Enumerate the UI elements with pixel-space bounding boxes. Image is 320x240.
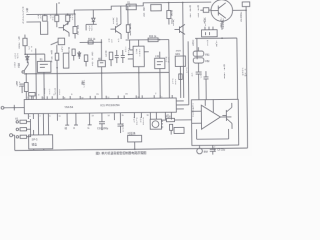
opto IC2	[63, 53, 69, 68]
svg-text:C6: C6	[191, 73, 193, 77]
resistor R20	[148, 38, 158, 42]
keypad IC5	[29, 130, 53, 151]
switch S1	[126, 4, 136, 10]
ground stub 2	[74, 124, 78, 126]
resistor R4	[73, 14, 77, 39]
diode VD1	[26, 54, 29, 63]
svg-text:C4: C4	[117, 39, 119, 43]
svg-text:R4 1k: R4 1k	[77, 26, 80, 36]
diode VD2	[78, 51, 81, 59]
svg-text:VT3: VT3	[172, 20, 174, 26]
svg-text:9014: 9014	[116, 19, 118, 27]
transistor VT2	[110, 6, 121, 39]
transistor VT4 power can	[211, 0, 233, 21]
wire drop x188	[187, 41, 190, 104]
terminal bottom left	[10, 134, 15, 151]
timer box	[128, 135, 142, 149]
svg-text:图1 单片机语音报警控制器电路原理图: 图1 单片机语音报警控制器电路原理图	[96, 150, 147, 156]
wire can emitter drop	[221, 21, 223, 29]
svg-text:C10 100μ: C10 100μ	[97, 126, 109, 130]
svg-text:GB 6V: GB 6V	[143, 8, 145, 18]
resistor R11	[84, 55, 88, 67]
resistor R2	[55, 15, 59, 27]
resistor R18	[161, 118, 191, 122]
wire mid-left node	[25, 48, 45, 99]
resistor R3	[66, 14, 70, 25]
capacitor C5	[121, 50, 125, 63]
capacitor C4	[115, 50, 119, 63]
module LS box	[155, 52, 166, 99]
terminal input	[1, 105, 24, 111]
switch SB1	[22, 62, 28, 74]
svg-text:R23: R23	[54, 89, 56, 95]
svg-text:7805: 7805	[127, 48, 129, 56]
wire AC input feed	[26, 21, 47, 34]
wire drop x183	[183, 2, 184, 97]
svg-text:C5 0.01: C5 0.01	[91, 53, 94, 67]
svg-text:4MHz: 4MHz	[83, 80, 85, 88]
capacitor C7	[203, 71, 208, 100]
svg-text:SB1: SB1	[13, 63, 15, 69]
wire left column drop	[24, 35, 26, 39]
svg-text:SP-3: SP-3	[32, 137, 38, 141]
node a stub	[56, 3, 58, 14]
resistor R7	[23, 38, 27, 54]
svg-text:51k: 51k	[18, 82, 21, 88]
box small mid	[174, 127, 184, 133]
wire top supply rail	[26, 2, 211, 14]
svg-text:GD1: GD1	[175, 54, 180, 56]
svg-text:BM: BM	[204, 150, 208, 154]
transistor VT1	[58, 23, 69, 37]
svg-text:FB1: FB1	[205, 55, 210, 57]
svg-text:10k: 10k	[58, 90, 61, 96]
svg-text:1k: 1k	[39, 15, 41, 19]
svg-text:IC3: IC3	[124, 47, 126, 53]
svg-text:0.1: 0.1	[30, 46, 32, 52]
svg-text:C7: C7	[200, 75, 202, 79]
svg-text:R22: R22	[43, 89, 45, 95]
wire mid rail 2	[126, 40, 170, 99]
svg-text:VD4: VD4	[203, 19, 205, 25]
microphone BM	[197, 145, 203, 153]
resistor R14	[126, 6, 130, 39]
capacitor C11	[117, 124, 123, 133]
resistor R12	[88, 41, 93, 44]
svg-text:R13: R13	[105, 52, 107, 58]
terminal XS	[233, 2, 250, 10]
svg-text:R8 47k: R8 47k	[50, 51, 53, 63]
IC1 main box	[24, 98, 176, 114]
ground stub 3	[88, 124, 92, 126]
svg-text:J4.5V: J4.5V	[220, 18, 222, 28]
capacitor C6	[196, 72, 202, 100]
input row 1	[16, 120, 30, 123]
svg-text:IC1 PIC16C54: IC1 PIC16C54	[100, 103, 120, 107]
svg-text:C8: C8	[213, 146, 216, 153]
resistor R15	[167, 3, 171, 25]
svg-text:TDA2030: TDA2030	[192, 104, 195, 118]
relay J1	[201, 27, 217, 37]
svg-text:C9 10μ: C9 10μ	[217, 148, 225, 151]
ferrite bead FB1	[193, 51, 204, 56]
crystal B2	[98, 61, 106, 99]
zener VD3	[86, 10, 97, 31]
input row 2	[16, 128, 30, 131]
wire keypad bus	[29, 119, 31, 137]
svg-text:键盘: 键盘	[32, 142, 38, 146]
IC3 box	[128, 40, 150, 99]
resistor R10	[72, 49, 75, 61]
resistor R16	[200, 8, 211, 13]
IC1 top pins	[28, 95, 172, 100]
wire right edge bus	[246, 10, 247, 148]
svg-text:C15: C15	[171, 79, 173, 85]
wire right block top	[195, 38, 237, 100]
svg-text:IC2: IC2	[61, 47, 63, 53]
svg-text:5k1: 5k1	[71, 15, 74, 21]
svg-text:C12: C12	[48, 89, 50, 95]
ground rail bottom	[15, 148, 248, 150]
svg-text:R7 300: R7 300	[18, 38, 20, 50]
svg-text:4148: 4148	[142, 118, 145, 126]
wire mid bus	[24, 72, 169, 74]
svg-text:3DG12: 3DG12	[222, 19, 224, 29]
svg-text:FB2: FB2	[205, 61, 210, 63]
buzzer HTD	[150, 119, 161, 129]
svg-text:R17 51: R17 51	[197, 6, 199, 18]
svg-text:R25: R25	[206, 41, 208, 47]
wire mid horizontal	[80, 39, 102, 61]
svg-text:R6: R6	[15, 82, 17, 86]
oscillator box B1	[37, 54, 51, 99]
op-amp IC4	[191, 99, 231, 139]
svg-text:2CP: 2CP	[90, 26, 92, 32]
resistor R19	[169, 124, 172, 134]
svg-text:IC6: IC6	[215, 42, 217, 48]
resistor R6	[24, 74, 28, 100]
capacitor C8	[210, 145, 216, 154]
svg-text:C11: C11	[121, 123, 124, 133]
svg-text:μPC: μPC	[135, 49, 137, 55]
transistor VT3	[174, 24, 185, 34]
svg-text:2CP: 2CP	[16, 54, 18, 60]
svg-text:3DD15: 3DD15	[240, 13, 242, 23]
svg-text:10k: 10k	[51, 15, 54, 21]
relay box K1	[51, 38, 65, 45]
resistor R8	[55, 45, 59, 99]
capacitor C10	[99, 122, 105, 130]
svg-text:R20 1k: R20 1k	[149, 36, 157, 38]
resistor R13	[109, 52, 113, 66]
svg-text:VD5: VD5	[192, 41, 194, 47]
svg-text:R16 10: R16 10	[189, 6, 191, 18]
svg-text:G: G	[88, 127, 90, 130]
svg-text:27B: 27B	[167, 58, 169, 64]
svg-text:HTD: HTD	[161, 119, 164, 129]
svg-text:R5: R5	[108, 39, 110, 43]
amplifier box	[191, 99, 238, 145]
resistor R1	[43, 14, 48, 21]
svg-text:C3: C3	[110, 40, 112, 44]
svg-text:VT2: VT2	[112, 19, 114, 25]
IC1 right pins	[176, 101, 189, 109]
svg-text:R14 2k: R14 2k	[129, 24, 132, 36]
svg-text:YM-54: YM-54	[64, 105, 73, 109]
input row 3	[16, 135, 30, 138]
battery GB	[151, 4, 162, 11]
svg-text:4N25: 4N25	[176, 50, 182, 52]
capacitor C1	[20, 84, 24, 93]
resistor R24	[179, 74, 182, 80]
svg-text:C14: C14	[185, 68, 187, 74]
svg-text:时基块: 时基块	[128, 131, 136, 135]
svg-text:R12 1k: R12 1k	[88, 39, 96, 41]
IC1 bottom pins	[28, 112, 171, 130]
svg-text:103: 103	[174, 79, 176, 85]
svg-text:1891: 1891	[138, 49, 140, 57]
transistor VT5	[222, 103, 232, 129]
svg-text:R17 10k: R17 10k	[223, 65, 226, 79]
ferrite bead FB2	[193, 47, 204, 72]
resistor R9h	[29, 92, 36, 99]
svg-text:0.5W: 0.5W	[243, 69, 246, 77]
ground stub 1	[65, 124, 69, 126]
svg-text:4148: 4148	[135, 118, 138, 126]
module right box	[175, 56, 186, 98]
svg-text:R10: R10	[68, 48, 70, 54]
